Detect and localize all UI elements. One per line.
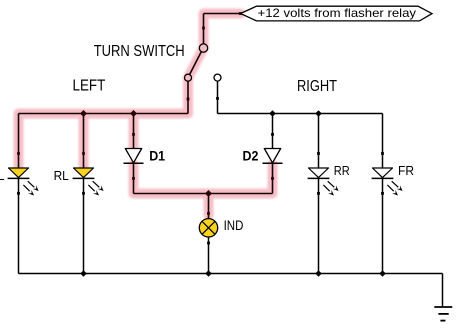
svg-text:RR: RR bbox=[334, 163, 350, 178]
diode D2 bbox=[263, 149, 283, 164]
svg-text:D1: D1 bbox=[149, 149, 165, 164]
wire: RL anode drop bbox=[83, 114, 85, 169]
wire: IND to bottom bus bbox=[208, 237, 210, 274]
node: bottom bus / RR junction bbox=[315, 270, 322, 277]
wire: +12V feed horizontal bbox=[204, 13, 241, 15]
LED RR (off) bbox=[308, 168, 339, 196]
wire: FL anode drop bbox=[18, 114, 20, 169]
wire: FR cathode to bus bbox=[382, 178, 384, 273]
pin: IND bottom bbox=[207, 242, 210, 245]
wire: RR anode drop bbox=[318, 114, 320, 169]
svg-text:TURN SWITCH: TURN SWITCH bbox=[94, 43, 185, 60]
switch left contact bbox=[185, 74, 192, 81]
wire: LEFT bus bbox=[19, 113, 189, 115]
pin: switch common bbox=[202, 27, 205, 30]
svg-text:D2: D2 bbox=[243, 149, 259, 164]
wire: RL cathode to bus bbox=[83, 178, 85, 273]
pin: RL cathode bbox=[82, 192, 85, 195]
svg-text:FR: FR bbox=[398, 163, 414, 178]
LED FR (off) bbox=[372, 168, 403, 196]
node: RIGHT bus / D2 junction bbox=[269, 110, 276, 117]
wire: FR anode drop bbox=[382, 114, 384, 169]
wire: bridge D1-D2 bbox=[134, 193, 273, 195]
pin: switch left pole bbox=[187, 98, 190, 101]
net flag: +12 volts from flasher relay bbox=[241, 6, 433, 21]
pin: FR cathode bbox=[381, 192, 384, 195]
ground bbox=[434, 307, 452, 321]
wire: feed vertical to switch common bbox=[203, 14, 205, 44]
svg-text:+12 volts from flasher relay: +12 volts from flasher relay bbox=[258, 7, 417, 20]
svg-text:RL: RL bbox=[54, 168, 69, 183]
node: LEFT bus / RL junction bbox=[80, 110, 87, 117]
wire: D2 anode drop bbox=[272, 114, 274, 149]
pin: RR anode bbox=[317, 152, 320, 155]
svg-text:LEFT: LEFT bbox=[73, 78, 106, 95]
pin: D1 anode bbox=[132, 133, 135, 136]
svg-text:RIGHT: RIGHT bbox=[297, 78, 337, 95]
LED RL (lit) bbox=[73, 168, 104, 196]
wire: D1 anode drop bbox=[133, 114, 135, 149]
wire: D1 cathode to bridge bbox=[133, 163, 135, 193]
wire: switch left pole to LEFT bus bbox=[187, 81, 189, 113]
wire: ground drop bbox=[442, 274, 444, 308]
node: bottom bus / FR junction bbox=[379, 270, 386, 277]
pin: RL anode bbox=[82, 152, 85, 155]
switch blade bbox=[190, 52, 202, 75]
indicator lamp IND bbox=[199, 219, 217, 237]
svg-text:FL: FL bbox=[0, 168, 5, 183]
highlighted net glow (active left-turn path) bbox=[19, 14, 273, 216]
pin: D2 cathode bbox=[271, 177, 274, 180]
pin: D2 anode bbox=[271, 133, 274, 136]
wire: D2 cathode to bridge bbox=[272, 163, 274, 193]
wire: RIGHT bus bbox=[218, 113, 383, 115]
pin: D1 cathode bbox=[132, 177, 135, 180]
node: LEFT bus / D1 junction bbox=[130, 110, 137, 117]
pin: flasher relay net connection bbox=[239, 12, 242, 15]
pin: FL cathode bbox=[17, 192, 20, 195]
pin: FR anode bbox=[381, 152, 384, 155]
node: bottom bus / RL junction bbox=[80, 270, 87, 277]
wire: FL cathode to bus bbox=[18, 178, 20, 273]
diode D1 bbox=[124, 149, 144, 164]
switch right contact bbox=[214, 74, 221, 81]
pin: FL anode bbox=[17, 152, 20, 155]
svg-text:IND: IND bbox=[224, 218, 244, 233]
wire: IND feed bbox=[208, 194, 210, 219]
LED FL (lit) bbox=[8, 168, 39, 196]
wire: RR cathode to bus bbox=[318, 178, 320, 273]
pin: IND top bbox=[207, 212, 210, 215]
switch common contact bbox=[199, 44, 207, 52]
pin: RR cathode bbox=[317, 192, 320, 195]
node: bottom bus / IND junction bbox=[205, 270, 212, 277]
node: RIGHT bus / RR junction bbox=[315, 110, 322, 117]
pin: switch right pole bbox=[216, 97, 219, 100]
node: bridge / IND junction bbox=[205, 190, 212, 197]
turn switch bbox=[185, 44, 222, 81]
wire: bottom ground bus bbox=[19, 273, 443, 275]
wire: switch right pole drop bbox=[217, 81, 219, 113]
